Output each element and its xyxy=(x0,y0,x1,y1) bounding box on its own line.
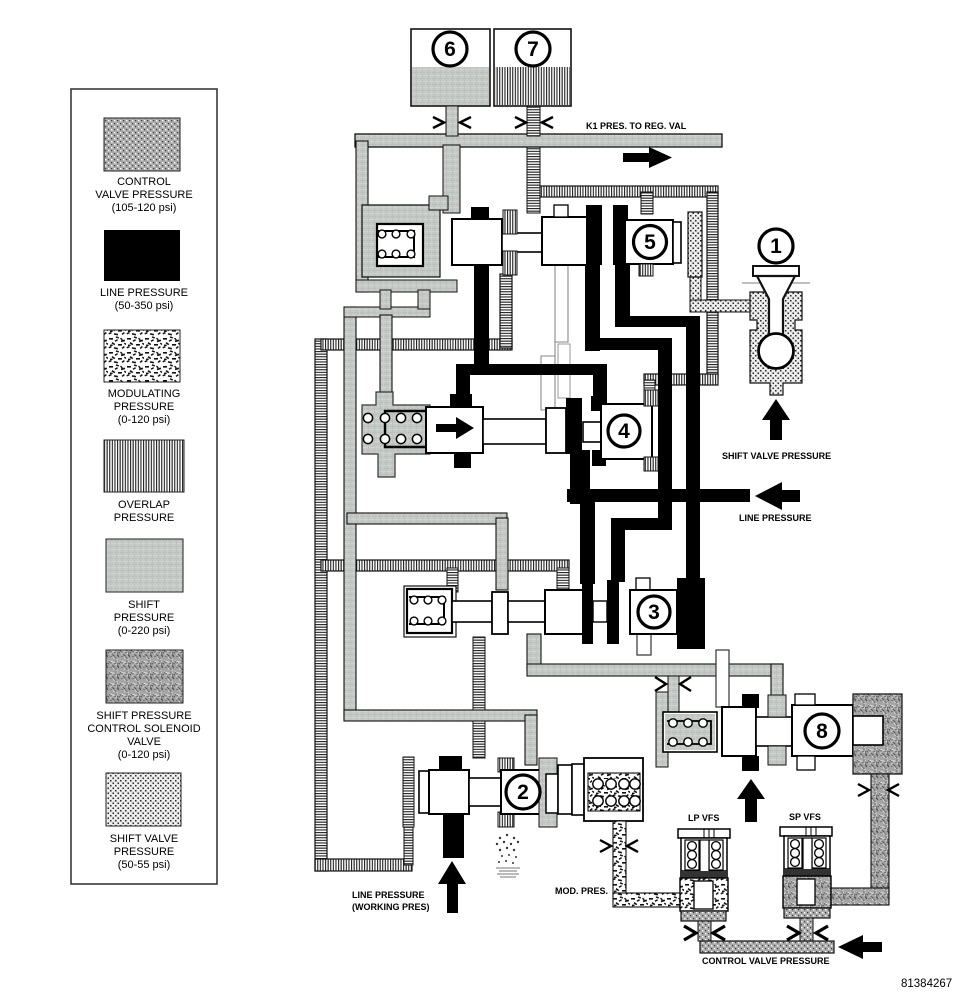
valve 3 spring xyxy=(407,589,452,633)
valve 5 housing xyxy=(362,205,440,277)
valve 4 right ribbed ports xyxy=(644,390,658,406)
valve 8 black bottom port xyxy=(742,756,759,771)
node circle 4 xyxy=(608,415,640,447)
solenoid control valve 8 assembly xyxy=(656,692,902,774)
wire shift gray long left vertical xyxy=(344,307,356,718)
arrow into valve 8 (up) xyxy=(737,779,765,799)
svg-text:2: 2 xyxy=(517,781,529,804)
svg-text:OVERLAP: OVERLAP xyxy=(118,499,170,511)
valve 5 neck xyxy=(502,233,542,252)
valve 8 gray stubs xyxy=(768,695,786,717)
svg-text:PRESSURE: PRESSURE xyxy=(114,612,175,624)
legend swatch shift pressure xyxy=(106,539,183,637)
wire control valve pressure bottom pipe xyxy=(700,941,834,953)
valve 4 neck xyxy=(483,419,546,444)
wire overlap top loop horizontal above valve 5 xyxy=(530,186,718,197)
valve 5 spool land 2 xyxy=(542,217,587,265)
svg-text:LINE PRESSURE: LINE PRESSURE xyxy=(100,287,188,299)
valve 4 neck 2 xyxy=(583,422,601,442)
valve 8 left bracket xyxy=(656,692,668,767)
wire thin drain from valve 5 center down xyxy=(558,344,570,398)
wire black valve 4 supply rail xyxy=(456,364,607,375)
wire noise pipe valve8 right down to SP VFS xyxy=(871,774,889,900)
svg-text:LINE PRESSURE: LINE PRESSURE xyxy=(352,890,425,900)
valve 5 bottom ribbed stub xyxy=(639,264,653,276)
wire shift gray main K1 pipe xyxy=(355,134,722,147)
orifice on modulating pipe xyxy=(600,840,611,852)
orifice below box 6 xyxy=(446,106,458,136)
wire shift gray stubs flange to H2 xyxy=(380,290,391,309)
valve 8 land 1 xyxy=(722,707,756,756)
wire shift gray valve3 bottom elbow to valve 8 xyxy=(527,634,541,670)
valve 3 land 2 xyxy=(545,590,588,634)
valve 8 right noise block xyxy=(853,694,902,774)
legend panel border xyxy=(71,89,217,884)
wire overlap ladder below valve 3 to valve 2 xyxy=(473,637,485,758)
arrow control valve pressure (pointing left) xyxy=(838,935,863,959)
svg-text:(0-120 psi): (0-120 psi) xyxy=(118,414,171,426)
wire overlap valve2 flange bar lower xyxy=(404,820,413,865)
wire overlap ladder tall left vertical xyxy=(315,339,327,871)
legend swatch line pressure xyxy=(100,230,188,312)
valve 2 spool end xyxy=(558,765,572,814)
node circle 1 xyxy=(759,229,793,263)
wire thin drain above valve 8 xyxy=(716,650,729,707)
valve 8 circle land xyxy=(792,705,853,756)
wire overlap channel from box 7 down to valve 5 xyxy=(527,145,540,213)
valve 8 black top port xyxy=(742,694,759,708)
svg-text:PRESSURE: PRESSURE xyxy=(114,846,175,858)
svg-text:MODULATING: MODULATING xyxy=(108,388,181,400)
valve 2 circle land xyxy=(501,770,546,814)
wire overlap bottom elbow to valve 2 flange xyxy=(315,859,412,871)
valve 2 black top port xyxy=(439,756,462,771)
valve 2 gray band xyxy=(539,758,557,827)
node circle 3 xyxy=(638,596,670,628)
svg-text:(105-120 psi): (105-120 psi) xyxy=(112,202,177,214)
valve 4 black section xyxy=(566,398,582,454)
wire shift valve pressure crosshatch from valve 5 to valve 1 xyxy=(690,275,701,305)
orifice on gray pipe to valve 8 xyxy=(655,677,666,691)
wire black valve5 port B3 to valve 3 right end xyxy=(615,264,630,327)
accumulator box 7 xyxy=(494,29,571,106)
valve 5 black band 2 xyxy=(613,205,628,265)
valve 2 ribbed stubs xyxy=(498,758,514,772)
valve 2 left ribbed flange xyxy=(403,757,414,827)
svg-text:SP VFS: SP VFS xyxy=(789,812,821,822)
svg-text:CONTROL SOLENOID: CONTROL SOLENOID xyxy=(87,723,200,735)
valve 2 left cap xyxy=(419,771,429,813)
svg-text:MOD. PRES.: MOD. PRES. xyxy=(555,886,608,896)
wire black valve4 bottom to valve3 top (B4) xyxy=(570,450,590,504)
wire overlap mid horizontal RH2 xyxy=(321,560,569,571)
valve 8 spring xyxy=(663,712,717,752)
valve 4 spring housing xyxy=(362,392,430,477)
wire thin drain from valve 5 to valve 4 top xyxy=(541,264,568,410)
shift valve 4 assembly xyxy=(362,390,658,477)
svg-text:SHIFT VALVE PRESSURE: SHIFT VALVE PRESSURE xyxy=(722,451,831,461)
wire black valve5 port B2 jog to valve 3 top xyxy=(585,264,600,351)
valve 4 circle land xyxy=(601,404,652,459)
spray drain below valve 2 xyxy=(496,834,519,864)
svg-text:(50-55 psi): (50-55 psi) xyxy=(118,859,171,871)
wire overlap loop stub down to valve 4 right end xyxy=(644,380,655,404)
wire overlap stub to valve 5 top xyxy=(641,192,653,214)
node circle 2 xyxy=(506,775,540,809)
node circle 5 xyxy=(634,226,667,259)
svg-text:8: 8 xyxy=(816,720,828,743)
svg-text:(0-120 psi): (0-120 psi) xyxy=(118,749,171,761)
valve 3 black right end xyxy=(677,578,705,649)
arrow shift valve pressure (up) xyxy=(762,399,790,420)
valve 5 circle land xyxy=(625,220,673,264)
svg-text:K1 PRES. TO REG. VAL: K1 PRES. TO REG. VAL xyxy=(586,121,687,131)
wire overlap valve5 bottom stub xyxy=(500,274,512,348)
solenoid LP VFS xyxy=(678,813,730,941)
wire shift gray channel box6 to valve 5 xyxy=(443,145,460,213)
svg-text:VALVE PRESSURE: VALVE PRESSURE xyxy=(95,189,192,201)
wire shift gray valve2 feed down xyxy=(525,715,537,765)
svg-text:SHIFT: SHIFT xyxy=(128,599,160,611)
svg-text:4: 4 xyxy=(618,420,630,443)
svg-text:(0-220 psi): (0-220 psi) xyxy=(118,625,171,637)
wire overlap horizontal from valve 5 bottom xyxy=(321,339,512,350)
svg-text:6: 6 xyxy=(444,38,456,61)
valve 3 black bands xyxy=(582,580,593,644)
arrow line pressure (pointing left) xyxy=(755,482,782,510)
valve 4 land xyxy=(546,408,566,453)
svg-text:(WORKING PRES): (WORKING PRES) xyxy=(352,902,430,912)
valve 3 spring bracket xyxy=(404,586,456,637)
wire shift gray valve5 housing bottom flange xyxy=(356,280,457,292)
valve 3 neck 1 xyxy=(452,601,492,622)
legend swatch shift valve pressure xyxy=(106,773,181,871)
svg-text:SHIFT PRESSURE: SHIFT PRESSURE xyxy=(96,710,191,722)
svg-text:VALVE: VALVE xyxy=(127,736,161,748)
svg-text:PRESSURE: PRESSURE xyxy=(114,512,175,524)
legend swatch overlap pressure xyxy=(104,440,184,524)
valve 8 neck xyxy=(756,717,792,746)
wire shift gray H3 horizontal to valve 3 xyxy=(347,513,507,524)
valve 2 spring housing with modulating fill xyxy=(584,758,643,821)
valve 5 spool land 1 xyxy=(452,219,502,265)
arrow line pressure working (up) xyxy=(438,861,466,884)
wire overlap loop bottom horizontal xyxy=(644,374,718,385)
valve 4 arrow block xyxy=(426,407,483,453)
svg-text:1: 1 xyxy=(770,235,782,258)
valve 5 overlap port blocks xyxy=(503,210,517,234)
wire black line pressure: valve5 port down to valve4 supply rail (B1) xyxy=(474,264,489,370)
valve 2 main land xyxy=(429,770,469,814)
shift valve 3 assembly xyxy=(404,578,705,649)
valve 5 crosshatch end xyxy=(688,212,702,277)
valve 3 circle land xyxy=(630,590,677,634)
orifice on noise pipe xyxy=(858,784,869,796)
wire shift gray orifice drop to valve 8 spring xyxy=(668,676,679,716)
wire overlap stub into valve 3 spring top xyxy=(557,568,569,592)
wire overlap top loop right vertical xyxy=(707,192,718,379)
svg-text:81384267: 81384267 xyxy=(901,978,952,990)
svg-text:LINE PRESSURE: LINE PRESSURE xyxy=(739,513,812,523)
svg-text:7: 7 xyxy=(527,38,539,61)
wire shift gray valve2 feed horizontal xyxy=(344,710,537,721)
wire shift gray H2 under valve 5 xyxy=(344,307,430,317)
spray tiny caption xyxy=(496,868,520,877)
svg-text:3: 3 xyxy=(648,601,660,624)
wire overlap stub down to valve 3 top xyxy=(447,568,458,592)
solenoid SP VFS xyxy=(780,812,832,941)
valve 2 small land xyxy=(546,774,558,813)
legend swatch control valve pressure xyxy=(95,118,192,214)
legend swatch shift pressure control solenoid valve xyxy=(87,650,200,761)
valve 2 black bottom feed xyxy=(443,813,464,858)
svg-text:(50-350 psi): (50-350 psi) xyxy=(115,300,174,312)
arrow K1 (pointing right) xyxy=(623,153,651,162)
valve 5 spring xyxy=(377,224,423,266)
check valve 1 body xyxy=(742,266,810,395)
valve 3 neck 2 xyxy=(508,601,545,622)
valve 5 black band 1 xyxy=(586,205,602,265)
svg-text:PRESSURE: PRESSURE xyxy=(114,401,175,413)
wire modulating pressure pipe from valve 2 down xyxy=(613,821,626,901)
wire thin drain below valve 3 xyxy=(637,634,651,655)
wire shift gray vertical into valve 3 top xyxy=(496,518,508,590)
orifice below box 7 xyxy=(527,106,540,136)
valve 2 neck xyxy=(469,778,501,806)
accumulator box 6 xyxy=(411,29,490,106)
wire shift gray left vertical upper xyxy=(356,141,368,292)
svg-text:LP VFS: LP VFS xyxy=(688,813,719,823)
svg-text:5: 5 xyxy=(644,231,656,254)
regulator valve 5 assembly xyxy=(362,196,702,277)
wire shift gray vertical to valve 4 spring xyxy=(380,315,392,403)
valve 5 top black port xyxy=(471,207,489,220)
valve 3 land 1 xyxy=(492,592,508,634)
svg-text:CONTROL VALVE PRESSURE: CONTROL VALVE PRESSURE xyxy=(702,956,830,966)
svg-text:CONTROL: CONTROL xyxy=(117,176,171,188)
svg-text:SHIFT VALVE: SHIFT VALVE xyxy=(110,833,178,845)
valve 3 white top stub xyxy=(636,578,650,592)
pressure regulator valve 2 assembly xyxy=(352,756,643,913)
node circle 8 xyxy=(805,714,839,748)
wire black LINE PRESSURE main horizontal xyxy=(567,489,750,502)
legend swatch modulating pressure xyxy=(104,330,180,426)
